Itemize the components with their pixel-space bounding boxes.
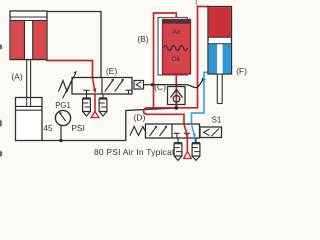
muffler on valve E port 1 [83, 94, 91, 116]
red exhaust triangle under valve D [184, 152, 192, 159]
valve D spring [130, 127, 146, 136]
svg-text:(F): (F) [236, 66, 247, 76]
piston rod of cylinder A [25, 21, 33, 98]
red pipe cylinder A rod-end to valve E [46, 61, 93, 79]
tank B body [163, 20, 191, 75]
svg-text:PG1: PG1 [55, 101, 71, 110]
blue flow through valve D to muffler [192, 124, 197, 142]
wire from cylinder A cap to valve E [47, 12, 101, 78]
red pipe tank top loop [154, 13, 177, 108]
red exhaust line under valve E [94, 94, 96, 112]
80 PSI air line [42, 108, 176, 141]
cylinder F [208, 7, 232, 75]
valve D right box blocked ports [174, 133, 190, 138]
crop artifact near cylinder F [195, 0, 197, 6]
valve E adjustable spring [59, 71, 77, 99]
valve E right box flow arrows [105, 79, 132, 95]
valve E body [72, 78, 132, 95]
svg-text:(E): (E) [106, 66, 118, 76]
pilot line valve E to blue pipe [153, 80, 204, 88]
svg-text:80 PSI Air In Typical: 80 PSI Air In Typical [94, 147, 174, 157]
solenoid S1 [200, 127, 222, 138]
junction dot pilot E on red line [151, 83, 154, 86]
cylinder A [10, 11, 47, 60]
red exhaust triangle under valve E [91, 112, 99, 118]
junction dot red manifold [175, 106, 179, 110]
svg-text:Air: Air [172, 29, 181, 36]
piston rod of cylinder F [217, 74, 222, 104]
svg-text:Oil: Oil [171, 56, 180, 63]
svg-text:45: 45 [44, 124, 53, 133]
edge artifact bottom [0, 151, 2, 158]
pilot check valve C [168, 87, 186, 105]
muffler on valve D port 1 [174, 138, 182, 160]
svg-text:(B): (B) [137, 34, 149, 44]
edge artifact top [0, 44, 2, 50]
svg-text:PSI: PSI [71, 123, 84, 133]
svg-text:(D): (D) [134, 113, 146, 123]
air-oil cylinder A2 [16, 98, 43, 141]
svg-text:(C): (C) [154, 82, 166, 92]
pressure gauge PG1 [55, 110, 70, 142]
valve E pilot [134, 81, 152, 90]
blue pipe cylinder F rod-end to valve D [192, 72, 209, 124]
red pipe U-turn to valve D [144, 108, 184, 124]
tank B shadow outline [158, 18, 188, 76]
valve E red flow path [93, 78, 97, 94]
red flow through valve D to exhaust triangle [184, 124, 189, 151]
svg-text:S1: S1 [212, 116, 222, 125]
muffler on valve E port 2 [99, 94, 107, 116]
valve E left box blocked ports [84, 90, 90, 94]
red pipe tank bottom to valve C [175, 74, 177, 108]
valve D body [146, 124, 200, 138]
edge artifact middle [0, 120, 2, 128]
red pipe junction to cylinder F cap [147, 7, 209, 108]
muffler on valve D port 2 [192, 138, 200, 160]
tank B oil level wave [164, 46, 188, 51]
valve D left box flow arrows [150, 125, 168, 136]
svg-text:(A): (A) [11, 72, 23, 82]
junction dot on blue pipe [202, 78, 206, 82]
